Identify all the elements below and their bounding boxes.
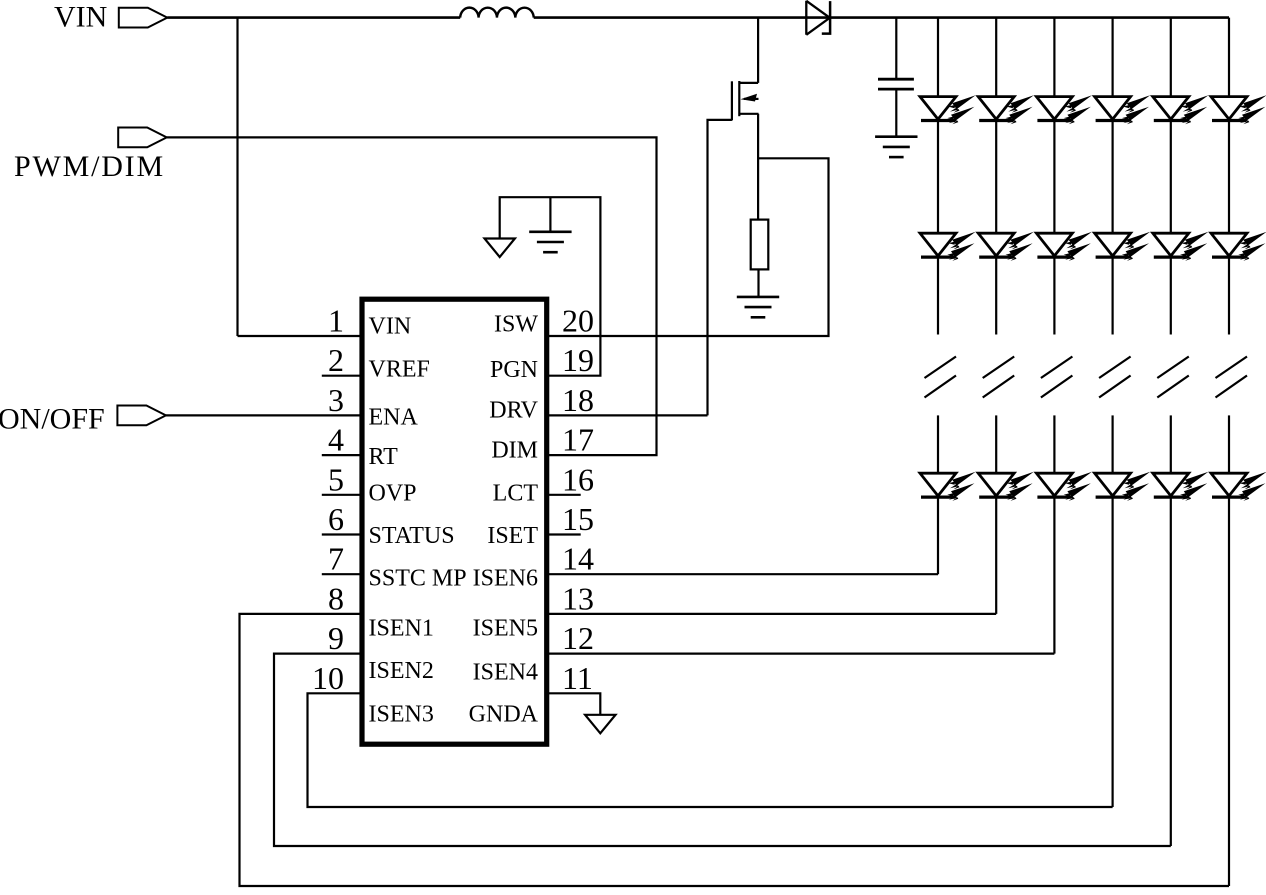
wire ISEN1 pin 8 loop to LED string 6 <box>240 614 1230 886</box>
wire ISEN6 pin 14 to LED string 1 <box>547 573 938 575</box>
LED D61 <box>1211 95 1266 124</box>
wire string 2 seg1 <box>995 119 997 233</box>
node LED string 4 top <box>1111 18 1113 97</box>
LED D23 <box>978 472 1034 501</box>
ground triangle on PGN net <box>485 239 515 258</box>
LED D43 <box>1095 472 1151 501</box>
ground for R1 <box>737 297 779 317</box>
svg-text:13: 13 <box>562 580 594 616</box>
connector ON/OFF input tag <box>117 406 166 426</box>
svg-text:ISW: ISW <box>494 312 538 338</box>
pin 7 stub <box>322 573 362 575</box>
svg-text:2: 2 <box>328 342 344 378</box>
wire Q1 drain from top rail <box>757 18 759 83</box>
wire string 1 bottom <box>937 496 939 574</box>
svg-text:VIN: VIN <box>369 313 412 339</box>
node LED string 3 top <box>1053 18 1055 97</box>
svg-text:OVP: OVP <box>369 481 417 507</box>
wire string 1 seg1 <box>937 119 939 233</box>
ground for C1 <box>875 137 917 157</box>
wire GNDA pin 11 <box>547 693 600 715</box>
LED D63 <box>1211 472 1266 501</box>
wire ISEN5 pin 13 to LED string 2 <box>547 613 996 615</box>
wire string 5 seg1 <box>1170 119 1172 233</box>
resistor R1 <box>751 220 769 270</box>
svg-text:ON/OFF: ON/OFF <box>0 402 105 435</box>
wire PWM/DIM to DIM pin 17 <box>167 137 657 455</box>
break marks string 6 <box>1216 357 1248 398</box>
IC U1 LED-driver 20-pin body <box>362 299 547 744</box>
wire ON/OFF to ENA pin 3 <box>166 414 362 416</box>
svg-text:5: 5 <box>328 461 344 497</box>
svg-text:LCT: LCT <box>493 480 539 506</box>
transistor Q1 NMOS <box>732 81 759 120</box>
svg-text:7: 7 <box>328 541 344 577</box>
wire R1 bottom <box>757 269 759 297</box>
svg-text:3: 3 <box>328 382 344 418</box>
svg-text:ISEN4: ISEN4 <box>473 659 538 685</box>
svg-text:STATUS: STATUS <box>369 523 455 549</box>
wire string 6 bottom <box>1228 496 1230 886</box>
svg-text:1: 1 <box>328 303 344 339</box>
svg-text:DRV: DRV <box>489 397 538 423</box>
diode D1 cathode bar <box>822 1 830 34</box>
wire string 3 seg1 <box>1053 119 1055 233</box>
svg-text:12: 12 <box>562 620 594 656</box>
LED D41 <box>1095 95 1151 124</box>
LED D32 <box>1036 232 1092 261</box>
wire string 5 bottom <box>1170 496 1172 846</box>
pin 5 stub <box>322 494 362 496</box>
svg-text:PWM/DIM: PWM/DIM <box>14 150 165 183</box>
pin 16 stub <box>547 494 581 496</box>
svg-text:14: 14 <box>562 541 594 577</box>
bar ground on PGN net <box>529 232 571 252</box>
node LED string 5 top <box>1170 18 1172 97</box>
wire string 1 seg2 <box>937 256 939 335</box>
svg-text:10: 10 <box>312 660 344 696</box>
svg-text:16: 16 <box>562 461 594 497</box>
wire string 6 seg2 <box>1228 256 1230 335</box>
wire PGN pin 19 up to grounds <box>500 197 601 376</box>
inductor L1 <box>460 8 534 18</box>
wire DRV pin 18 <box>547 414 708 416</box>
LED D62 <box>1211 232 1266 261</box>
wire string 2 seg2 <box>995 256 997 335</box>
wire string 1 seg3 <box>937 415 939 473</box>
break marks string 4 <box>1099 357 1131 398</box>
svg-text:11: 11 <box>562 660 593 696</box>
svg-text:15: 15 <box>562 501 594 537</box>
svg-text:17: 17 <box>562 422 594 458</box>
wire cap top <box>895 18 897 80</box>
break marks string 2 <box>983 357 1015 398</box>
svg-text:SSTC MP: SSTC MP <box>369 566 467 592</box>
wire string 4 seg1 <box>1111 119 1113 233</box>
wire pin1 to VIN column <box>238 335 363 337</box>
wire VIN vertical to pin 1 <box>236 18 238 336</box>
capacitor C1 <box>878 79 914 89</box>
LED D21 <box>978 95 1034 124</box>
LED D52 <box>1153 232 1209 261</box>
svg-text:ISEN5: ISEN5 <box>473 616 538 642</box>
wire string 4 seg3 <box>1111 415 1113 473</box>
wire string 3 bottom <box>1053 496 1055 654</box>
wire cap bottom <box>895 89 897 137</box>
LED D13 <box>920 472 976 501</box>
wire Q1 gate down to DRV <box>708 120 732 416</box>
pin 2 stub <box>322 375 362 377</box>
svg-text:VREF: VREF <box>369 357 430 383</box>
wire string 5 seg2 <box>1170 256 1172 335</box>
break marks string 5 <box>1157 357 1189 398</box>
break marks string 1 <box>925 357 957 398</box>
wire string 5 seg3 <box>1170 415 1172 473</box>
LED D33 <box>1036 472 1092 501</box>
diode D1 <box>806 1 830 35</box>
svg-text:20: 20 <box>562 303 594 339</box>
wire ISEN4 pin 12 to LED string 3 <box>547 652 1054 654</box>
wire source branch to ISW pin 20 <box>547 158 829 336</box>
LED D12 <box>920 232 976 261</box>
wire ISEN3 pin 10 loop to LED string 4 <box>308 693 1113 807</box>
svg-text:18: 18 <box>562 382 594 418</box>
LED D31 <box>1036 95 1092 124</box>
LED D11 <box>920 95 976 124</box>
svg-text:ISEN1: ISEN1 <box>369 616 434 642</box>
node LED string 2 top <box>995 18 997 97</box>
svg-text:RT: RT <box>369 444 399 470</box>
wire to bar ground <box>549 197 551 232</box>
svg-text:GNDA: GNDA <box>469 702 539 728</box>
svg-text:DIM: DIM <box>491 438 538 464</box>
svg-text:ISEN3: ISEN3 <box>369 702 434 728</box>
pin 4 stub <box>322 454 362 456</box>
svg-text:4: 4 <box>328 422 344 458</box>
svg-text:ENA: ENA <box>369 405 419 431</box>
ground triangle GNDA <box>585 715 615 734</box>
wire string 3 seg3 <box>1053 415 1055 473</box>
node LED string 6 top <box>1228 18 1230 97</box>
svg-text:VIN: VIN <box>54 1 107 34</box>
LED D53 <box>1153 472 1209 501</box>
svg-text:ISEN6: ISEN6 <box>473 566 538 592</box>
wire string 3 seg2 <box>1053 256 1055 335</box>
wire ISEN2 pin 9 loop to LED string 5 <box>274 654 1171 846</box>
svg-text:19: 19 <box>562 342 594 378</box>
wire string 2 bottom <box>995 496 997 614</box>
svg-text:ISET: ISET <box>487 523 538 549</box>
pin 15 stub <box>547 533 581 535</box>
LED D51 <box>1153 95 1209 124</box>
svg-text:6: 6 <box>328 501 344 537</box>
connector PWM/DIM input tag <box>118 127 167 147</box>
break marks string 3 <box>1041 357 1073 398</box>
net VIN top rail wire <box>167 16 1229 19</box>
pin 6 stub <box>322 533 362 535</box>
svg-text:8: 8 <box>328 580 344 616</box>
wire string 2 seg3 <box>995 415 997 473</box>
wire string 6 seg1 <box>1228 119 1230 233</box>
wire string 4 bottom <box>1111 496 1113 807</box>
LED D22 <box>978 232 1034 261</box>
connector VIN input tag <box>119 8 168 28</box>
LED D42 <box>1095 232 1151 261</box>
wire string 6 seg3 <box>1228 415 1230 473</box>
svg-text:9: 9 <box>328 620 344 656</box>
svg-text:PGN: PGN <box>490 357 538 383</box>
svg-text:ISEN2: ISEN2 <box>369 658 434 684</box>
wire Q1 source to resistor <box>757 114 759 220</box>
node LED string 1 top <box>937 18 939 97</box>
wire string 4 seg2 <box>1111 256 1113 335</box>
